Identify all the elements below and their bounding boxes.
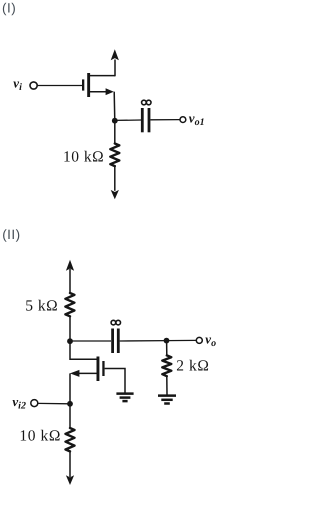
wire node A to capacitor C1 bbox=[115, 119, 141, 121]
resistor R3 2k bbox=[162, 355, 171, 376]
wire node D to resistor R4 bbox=[69, 404, 71, 429]
node A (source output node) bbox=[112, 118, 118, 124]
output terminal vo1 bbox=[180, 117, 186, 123]
resistor R1 10k bbox=[110, 144, 119, 167]
svg-text:10 kΩ: 10 kΩ bbox=[63, 148, 104, 165]
ground G2 bbox=[158, 396, 176, 404]
VDD arrow (I) bbox=[111, 49, 119, 60]
svg-text:5 kΩ: 5 kΩ bbox=[25, 297, 58, 314]
ground G1 bbox=[116, 394, 133, 402]
wire resistor R3 to ground G2 bbox=[166, 376, 168, 394]
infinity value label C1 bbox=[142, 100, 151, 105]
VSS arrow (II) bbox=[66, 475, 74, 485]
node B (drain node) bbox=[67, 338, 73, 344]
wire source Q2 to node D bbox=[69, 373, 71, 404]
resistor R4 10k bbox=[66, 428, 75, 451]
wire capacitor C2 to node C bbox=[120, 340, 167, 342]
wire resistor R1 to VSS bbox=[114, 166, 116, 191]
VSS arrow (I) bbox=[111, 190, 119, 199]
infinity value label C2 bbox=[111, 320, 120, 325]
wire node C to resistor R3 bbox=[166, 341, 168, 355]
wire capacitor C1 to output terminal bbox=[150, 119, 179, 121]
wire gate Q2 to ground G1 bbox=[105, 369, 125, 394]
svg-text:(I): (I) bbox=[2, 1, 16, 16]
svg-text:(II): (II) bbox=[2, 227, 21, 242]
VDD arrow (II) bbox=[66, 260, 74, 271]
svg-text:2 kΩ: 2 kΩ bbox=[176, 357, 209, 374]
wire drain Q2 to node B bbox=[69, 341, 71, 360]
wire node B to capacitor C2 bbox=[70, 340, 111, 342]
wire VDD to resistor R2 bbox=[69, 269, 71, 293]
capacitor C1 bbox=[141, 108, 151, 132]
output terminal vo bbox=[196, 337, 202, 343]
wire resistor R4 to VSS bbox=[69, 451, 71, 477]
svg-text:10 kΩ: 10 kΩ bbox=[19, 427, 61, 444]
wire resistor R2 to node B bbox=[69, 317, 71, 342]
wire gate Q1 bbox=[37, 85, 82, 87]
transistor Q2 bbox=[70, 357, 105, 382]
wire terminal vi2 to node D bbox=[38, 402, 70, 404]
input terminal vi2 bbox=[31, 400, 38, 407]
input terminal vi bbox=[30, 82, 37, 89]
wire source Q1 to node A bbox=[113, 92, 116, 121]
transistor Q1 bbox=[82, 73, 115, 97]
capacitor C2 bbox=[111, 329, 120, 354]
wire node A to resistor R1 bbox=[114, 121, 116, 144]
wire drain Q1 to VDD bbox=[114, 60, 116, 77]
resistor R2 5k bbox=[65, 293, 74, 316]
node C (output node) bbox=[164, 338, 170, 344]
wire node C to output terminal vo bbox=[167, 339, 197, 341]
node D (source input node) bbox=[67, 401, 73, 407]
